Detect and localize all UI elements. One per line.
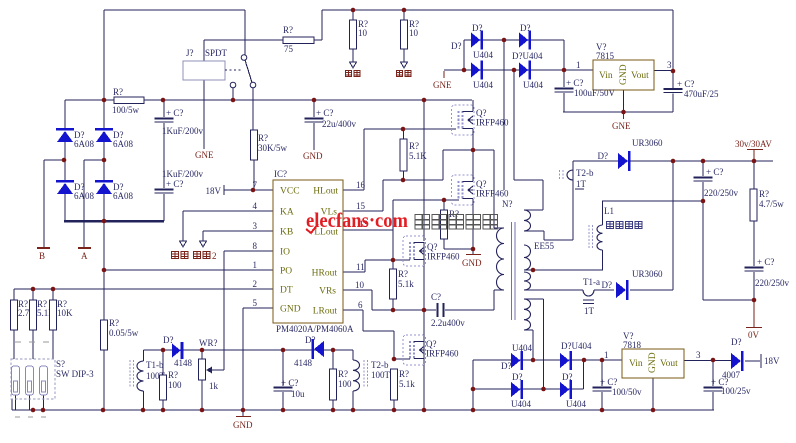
pin 11 [356, 262, 365, 272]
wire [13, 289, 15, 300]
wire [64, 142, 66, 180]
wire [544, 239, 573, 241]
pin name HRout [312, 269, 338, 279]
pin 4 [253, 201, 258, 211]
svg-text:0.05/5w: 0.05/5w [109, 328, 139, 338]
wire junction at 713,360 [711, 358, 716, 363]
diode D? 6A08 (3) [56, 180, 94, 201]
svg-text:R?: R? [399, 369, 409, 379]
wire [472, 150, 474, 181]
resistor R? 5.1K (gate1) [400, 129, 427, 180]
diode D? U404 (1) [451, 23, 493, 60]
port 30v/30AV [735, 139, 772, 161]
regulator V? 7818 [604, 331, 701, 378]
wire junction at 543.5,389 [541, 387, 546, 392]
svg-text:3: 3 [253, 221, 258, 231]
svg-text:16: 16 [356, 180, 366, 190]
wire junction at 584,360 [582, 358, 587, 363]
wire junction at 353,410 [351, 408, 356, 413]
wire main dc rail [65, 99, 472, 101]
wire [383, 179, 443, 181]
wire junction at 333,410 [331, 408, 336, 413]
transformer secondary winding s3 [524, 272, 531, 290]
wire [503, 40, 505, 190]
svg-text:J?: J? [186, 48, 194, 58]
svg-text:11: 11 [356, 262, 365, 272]
pin name VLs [321, 208, 338, 218]
svg-text:7818: 7818 [623, 340, 642, 350]
svg-text:U404: U404 [511, 399, 531, 409]
transformer primary winding [497, 228, 504, 290]
svg-text:+ C?: + C? [316, 108, 333, 118]
wire [494, 289, 504, 291]
wire [244, 10, 246, 55]
resistor R? 30K/5w [251, 130, 288, 190]
wire [745, 360, 760, 362]
power GNE (aux bridge) [433, 71, 452, 90]
svg-text:R?: R? [168, 370, 178, 380]
svg-text:1T: 1T [584, 306, 595, 316]
power GNE (7815) [612, 112, 631, 131]
wire junction at 703,201 [701, 199, 706, 204]
wire [443, 149, 494, 151]
svg-text:GND: GND [619, 64, 629, 85]
svg-text:Vout: Vout [631, 71, 649, 81]
wire [594, 289, 614, 291]
svg-text:UR3060: UR3060 [632, 138, 663, 148]
wire junction at 404,10 [402, 8, 407, 13]
transformer N? label [502, 199, 513, 209]
wire GND5 [243, 307, 273, 309]
svg-text:7815: 7815 [596, 51, 615, 61]
svg-text:3: 3 [696, 350, 701, 360]
svg-text:GND: GND [648, 352, 658, 373]
wire to terminal A [83, 160, 85, 247]
pin name KB [280, 228, 293, 238]
wire [29, 395, 31, 410]
wire junction at 602,410 [600, 408, 605, 413]
svg-text:6A08: 6A08 [113, 191, 133, 201]
pin 8 [253, 241, 258, 251]
pin name VRs [319, 287, 336, 297]
svg-text:HRout: HRout [312, 269, 338, 279]
diode D? 4148 (2) [294, 335, 324, 368]
wire [203, 40, 205, 61]
svg-text:10: 10 [358, 28, 368, 38]
wire HLout [343, 189, 364, 191]
svg-text:Vin: Vin [599, 71, 613, 81]
wire [463, 40, 465, 70]
svg-text:1: 1 [576, 60, 581, 70]
op-amp U? IC PM4020A/PM4060A box [273, 169, 354, 334]
wire junction at 64,160 [62, 158, 67, 163]
svg-text:N?: N? [502, 199, 513, 209]
pin name VCC [280, 187, 300, 197]
resistor R? 100 (1) [160, 350, 183, 410]
svg-text:5.1K: 5.1K [409, 151, 427, 161]
wire junction at 473,410 [471, 408, 476, 413]
svg-text:75: 75 [284, 44, 294, 54]
wire [684, 360, 731, 362]
wire [542, 180, 544, 210]
capacitor C? 100/50v [593, 360, 643, 410]
svg-text:100/5w: 100/5w [112, 105, 140, 115]
resistor R? 5.1K (dip) [30, 299, 56, 359]
wire junction at 424,310 [422, 308, 427, 313]
svg-text:D?: D? [520, 23, 531, 33]
svg-text:IC?: IC? [274, 169, 287, 179]
wire [103, 10, 105, 100]
svg-text:30v/30AV: 30v/30AV [735, 139, 772, 149]
wire [473, 388, 584, 390]
wire junction at 473,150 [471, 148, 476, 153]
diode D? 6A08 (1) [56, 128, 94, 149]
wire junction at 163,350 [161, 348, 166, 353]
diode D? U404 (4) [519, 61, 543, 90]
wire junction at 653,410 [651, 408, 656, 413]
wire [103, 100, 105, 128]
svg-text:6A08: 6A08 [74, 139, 94, 149]
wire [364, 260, 366, 272]
resistor R? 0.05/5w [101, 270, 139, 410]
wire gate Q4 [394, 358, 410, 360]
switch contacts [230, 55, 256, 88]
wire [32, 289, 34, 300]
wire junction at 353,10 [351, 8, 356, 13]
potentiometer WR? 1k [199, 338, 225, 410]
svg-text:DT: DT [280, 286, 293, 296]
pin 6 [358, 300, 363, 310]
wire junction at 163,410 [161, 408, 166, 413]
pin name DT [280, 286, 293, 296]
wire [543, 299, 545, 389]
svg-text:+ C?: + C? [677, 79, 694, 89]
svg-text:18V: 18V [764, 356, 780, 366]
svg-text:SW DIP-3: SW DIP-3 [56, 369, 94, 379]
wire 30v output [573, 160, 773, 162]
wire junction at 333,350 [331, 348, 336, 353]
pin name LRout [313, 307, 338, 317]
wire [602, 200, 703, 202]
capacitor C? 220/250v (2) [745, 257, 790, 300]
wire [630, 289, 673, 291]
wire junction at 473,249 [471, 247, 476, 252]
svg-text:4148: 4148 [294, 358, 313, 368]
capacitor C? 2.2u400v [393, 292, 494, 328]
wire junction at 233,100 [231, 98, 236, 103]
svg-text:LRout: LRout [313, 307, 338, 317]
svg-text:U404: U404 [566, 399, 586, 409]
svg-text:D?: D? [305, 335, 316, 345]
wire junction at 393,310 [391, 308, 396, 313]
terminal A [78, 248, 91, 261]
wire [44, 159, 64, 161]
svg-text:C?: C? [431, 292, 441, 302]
svg-text:1T: 1T [576, 179, 587, 189]
svg-text:GND: GND [233, 420, 253, 430]
svg-text:100/50v: 100/50v [612, 387, 642, 397]
transistor Q2 IRFP460 [452, 175, 510, 205]
pin name KA [280, 208, 294, 218]
wire junction at 444,200 [442, 198, 447, 203]
wire junction at 424,100 [422, 98, 427, 103]
wire [103, 194, 105, 221]
wire junction at 104,270 [102, 268, 107, 273]
wire center tap [524, 269, 603, 271]
wire gate Q2 [393, 199, 459, 201]
wire [252, 88, 254, 130]
ground GND (22u cap) [303, 151, 323, 161]
svg-text:D?: D? [163, 335, 174, 345]
pin 15 [356, 201, 366, 211]
svg-text:GNE: GNE [612, 121, 631, 131]
wire [472, 129, 474, 150]
wire [532, 330, 534, 360]
wire [524, 298, 544, 300]
svg-text:4148: 4148 [174, 358, 193, 368]
label EE55 [534, 241, 554, 251]
svg-text:T1-b: T1-b [146, 360, 164, 370]
wire [371, 290, 373, 310]
diode D? U404 (3) [471, 61, 493, 90]
svg-text:UR3060: UR3060 [632, 269, 663, 279]
svg-text:IRFP460: IRFP460 [426, 349, 459, 359]
wire rect row2 [444, 69, 593, 71]
svg-text:2.2u400v: 2.2u400v [431, 318, 465, 328]
transformer secondary winding s4 [524, 299, 531, 330]
svg-text:5.1k: 5.1k [399, 379, 415, 389]
svg-text:5: 5 [253, 298, 258, 308]
wire [654, 70, 673, 72]
pin 2 [253, 279, 258, 289]
wire rect row1 [464, 39, 564, 41]
wire to terminal B [43, 160, 45, 247]
svg-text:22u/400v: 22u/400v [322, 119, 357, 129]
svg-text:6A08: 6A08 [74, 191, 94, 201]
resistor R? 2.7K [11, 299, 37, 359]
ground GND (Q2 source) [462, 249, 482, 268]
svg-text:R?: R? [759, 189, 769, 199]
wire VCC [224, 189, 273, 191]
wire bridge bottom rail [64, 220, 164, 222]
wire junction at 314,100 [312, 98, 317, 103]
wire junction at 473,389 [471, 387, 476, 392]
svg-text:PM4020A/PM4060A: PM4020A/PM4060A [276, 324, 354, 334]
svg-text:IO: IO [280, 248, 290, 258]
svg-text:VRs: VRs [319, 287, 336, 297]
svg-text:10u: 10u [291, 389, 305, 399]
pin 16 [356, 180, 366, 190]
wire VLs [343, 210, 383, 212]
svg-text:GND: GND [280, 305, 301, 315]
svg-text:GNE: GNE [433, 80, 452, 90]
resistor R? 10K [50, 299, 74, 359]
svg-text:GND: GND [462, 258, 482, 268]
capacitor C? 22u/400v [305, 100, 357, 150]
diode D? U404 (6) [560, 341, 592, 370]
wire [64, 100, 66, 128]
wire junction at 33,289 [31, 287, 36, 292]
capacitor C? 220/250v (1) [694, 161, 739, 201]
wire junction at 202,410 [200, 408, 205, 413]
svg-text:R?: R? [338, 369, 348, 379]
pin name IO [280, 248, 290, 258]
wire [203, 80, 205, 149]
svg-text:R?: R? [283, 25, 293, 35]
resistor R? 100/5w [112, 87, 144, 115]
svg-text:L1: L1 [604, 206, 614, 216]
terminal B [37, 248, 50, 261]
wire [423, 341, 425, 359]
wire PO [104, 269, 273, 271]
svg-text:Q?: Q? [476, 179, 487, 189]
wire junction at 43,410 [41, 408, 46, 413]
wire [382, 180, 384, 211]
pin 13 [359, 219, 369, 229]
wire [583, 360, 585, 389]
svg-text:6: 6 [358, 300, 363, 310]
wire [103, 142, 105, 160]
wire junction at 253,190 [251, 188, 256, 193]
svg-text:10: 10 [355, 280, 365, 290]
wire [514, 179, 543, 181]
svg-text:U404: U404 [512, 343, 532, 353]
wire HRout [343, 271, 365, 273]
svg-text:470uF/25: 470uF/25 [684, 89, 719, 99]
resistor R? 75 [283, 25, 314, 54]
svg-text:8: 8 [253, 241, 258, 251]
svg-text:D?: D? [731, 337, 742, 347]
wire top rail left [104, 9, 245, 11]
wire VRs [343, 289, 372, 291]
transformer secondary winding s2 [524, 245, 531, 270]
svg-text:D?: D? [501, 361, 512, 371]
wire [423, 260, 425, 310]
svg-text:1k: 1k [209, 381, 219, 391]
svg-text:D?: D? [562, 372, 573, 382]
diode D? U404 (7) [511, 372, 531, 409]
svg-text:10K: 10K [57, 308, 73, 318]
svg-text:S?: S? [56, 359, 65, 369]
capacitor C? 470uF/25 [664, 79, 720, 112]
wire junction at 104,221 [102, 219, 107, 224]
svg-text:B: B [39, 251, 45, 261]
svg-text:6A08: 6A08 [113, 139, 133, 149]
wire [372, 309, 393, 311]
wire to primary [493, 150, 495, 228]
svg-text:Q?: Q? [427, 242, 438, 252]
wire junction at 623.5,112 [621, 110, 626, 115]
watermark elecfans [306, 208, 408, 233]
wire [52, 289, 54, 300]
svg-text:U404: U404 [473, 80, 493, 90]
wire gate Q1 [364, 128, 456, 130]
wire junction at 424,410 [422, 408, 427, 413]
wire junction at 403,129 [401, 127, 406, 132]
capacitor C? 100/25v [704, 360, 752, 410]
transistor Q3 IRFP460 [403, 236, 460, 266]
svg-text:5.1k: 5.1k [398, 279, 414, 289]
svg-text:+ C?: + C? [166, 108, 183, 118]
label control-2 [194, 251, 217, 261]
svg-text:T2-b: T2-b [371, 360, 389, 370]
svg-text:+ C?: + C? [600, 377, 617, 387]
wire feedback row [144, 349, 354, 351]
pin 1 [253, 260, 258, 270]
wire DT [14, 288, 273, 290]
resistor R? (gate2) [441, 200, 474, 249]
power GNE (relay) [195, 150, 214, 160]
wire [494, 227, 504, 229]
capacitor C? 100uF/50V [555, 70, 616, 112]
wire [472, 199, 474, 249]
wire junction at 754,161 [752, 159, 757, 164]
wire KA [183, 210, 273, 212]
wire junction at 703,161 [701, 159, 706, 164]
wire [702, 201, 704, 300]
wire junction at 504,40 [502, 38, 507, 43]
diode D? 6A08 (4) [95, 180, 133, 201]
wire [423, 310, 425, 341]
wire [524, 209, 543, 211]
svg-text:0V: 0V [748, 330, 760, 340]
diode D? 4007 [722, 337, 744, 380]
svg-text:220/250v: 220/250v [704, 188, 739, 198]
wire [103, 160, 105, 180]
resistor R? 10 (fan b) [401, 10, 420, 68]
wire junction at 533,360 [531, 358, 536, 363]
svg-text:30K/5w: 30K/5w [258, 143, 288, 153]
resistor R? 4.7/5w [750, 161, 784, 266]
svg-text:T1-a: T1-a [583, 277, 600, 287]
label fan a [346, 71, 361, 77]
wire [513, 70, 515, 180]
transformer core [512, 222, 515, 320]
wire [524, 289, 583, 291]
svg-text:U404: U404 [473, 50, 493, 60]
wire junction at 394,359 [392, 357, 397, 362]
wire [242, 308, 244, 410]
svg-text:U404: U404 [523, 80, 543, 90]
svg-text:GND: GND [303, 151, 323, 161]
wire junction at 103,410 [101, 408, 106, 413]
wire junction at 602,360 [600, 358, 605, 363]
wire junction at 163,100 [161, 98, 166, 103]
svg-text:R?: R? [398, 269, 408, 279]
wire junction at 394,410 [392, 408, 397, 413]
control arrow 1 [180, 241, 187, 247]
transformer secondary winding s1 [524, 210, 531, 231]
diode D? UR3060 (1) [598, 138, 664, 171]
svg-text:10: 10 [409, 28, 419, 38]
svg-text:A: A [81, 251, 88, 261]
control arrow 2 [200, 241, 207, 247]
wire junction at 673,71 [671, 69, 676, 74]
wire [64, 194, 66, 221]
wire [204, 39, 283, 41]
svg-text:D?U404: D?U404 [561, 341, 592, 351]
wire junction at 143,410 [141, 408, 146, 413]
wire [362, 310, 364, 331]
svg-text:SPDT: SPDT [205, 48, 228, 58]
wire [423, 242, 425, 260]
wire reg gnd rail [563, 111, 673, 113]
wire [314, 39, 322, 41]
wire [84, 159, 104, 161]
wire [623, 90, 625, 112]
wire [524, 329, 533, 331]
wire [703, 299, 754, 301]
